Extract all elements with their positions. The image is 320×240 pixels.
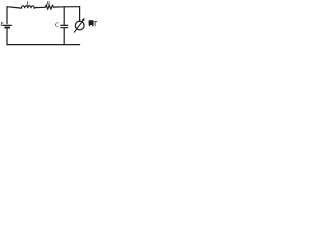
- wire bottom: [7, 44, 80, 46]
- wire left vertical battery bottom lead: [6, 29, 8, 45]
- battery E short plate: [5, 27, 9, 29]
- capacitor C1 bottom plate: [61, 27, 68, 29]
- wire capacitor branch top lead: [63, 7, 65, 25]
- label mA glyph1: [89, 20, 94, 26]
- wire left vertical battery top lead: [6, 7, 8, 24]
- label mA glyph2: [94, 21, 97, 26]
- galvanometer G circle: [75, 21, 84, 30]
- wire top-right segment: [54, 6, 80, 8]
- capacitor C1 top plate: [61, 24, 68, 26]
- wire top-middle segment: [34, 6, 45, 9]
- galvanometer needle arrowhead: [82, 18, 85, 22]
- resistor R1: [45, 5, 54, 9]
- galvanometer needle: [74, 20, 83, 32]
- svg-text:Е: Е: [0, 22, 4, 28]
- wire capacitor branch bottom lead: [63, 28, 65, 44]
- svg-text:L: L: [25, 1, 30, 8]
- wire galvanometer top lead: [79, 7, 81, 22]
- svg-text:R: R: [45, 0, 50, 7]
- wire top-left segment: [7, 7, 21, 8]
- battery E long plate: [3, 24, 11, 26]
- inductor L1: [21, 6, 34, 8]
